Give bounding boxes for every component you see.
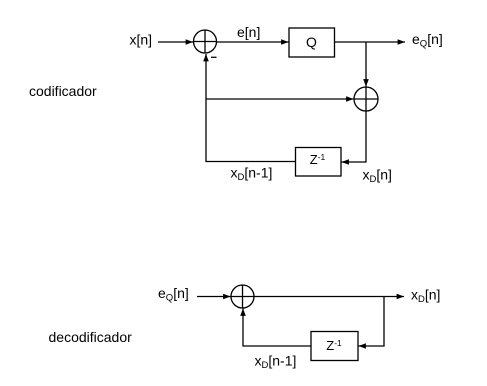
svg-text:eQ[n]: eQ[n]: [158, 285, 189, 304]
label decodificador: [49, 329, 133, 345]
wire branch down into delay block Z2: [359, 297, 385, 347]
wire S1 to block Q: [217, 41, 289, 43]
delay block Z2 (z^-1): [311, 332, 358, 361]
wire Q to output eQ[n]: [335, 41, 406, 43]
svg-text:xD[n]: xD[n]: [411, 287, 440, 306]
label xD[n-1] (decoder): [255, 353, 297, 372]
summing junction S1: [194, 30, 217, 53]
label eQ[n] (decoder input): [158, 285, 189, 304]
wire Z1 output feedback up to S1: [206, 54, 296, 162]
delay block Z1 (z^-1): [296, 148, 342, 177]
svg-text:codificador: codificador: [29, 83, 97, 99]
svg-text:e[n]: e[n]: [237, 24, 260, 40]
label xD[n] (encoder): [363, 167, 392, 186]
minus sign at S1 lower input: [211, 56, 217, 58]
label e[n]: [237, 24, 260, 40]
label codificador: [29, 83, 97, 99]
wire input x[n] to summer S1: [158, 41, 193, 43]
wire S2 down into delay block Z1: [342, 111, 367, 162]
label xD[n-1] (encoder): [231, 165, 273, 184]
wire Z2 output feedback up to S3: [243, 309, 311, 347]
summing junction S2: [354, 87, 378, 111]
block Q: [289, 28, 335, 57]
wire branch down to summer S2: [365, 42, 367, 87]
summing junction S3: [231, 285, 254, 308]
svg-text:x[n]: x[n]: [130, 32, 153, 48]
svg-text:xD[n-1]: xD[n-1]: [255, 353, 297, 372]
wire input to summer S3: [197, 296, 231, 298]
label xD[n] (decoder output): [411, 287, 440, 306]
svg-text:decodificador: decodificador: [49, 329, 133, 345]
label eQ[n]: [412, 31, 443, 50]
svg-text:eQ[n]: eQ[n]: [412, 31, 443, 50]
svg-text:xD[n-1]: xD[n-1]: [231, 165, 273, 184]
svg-text:Q: Q: [306, 34, 317, 50]
wire feedback branch to S2: [206, 98, 354, 100]
wire S3 to output xD[n]: [254, 296, 404, 298]
label x[n]: [130, 32, 153, 48]
svg-text:xD[n]: xD[n]: [363, 167, 392, 186]
